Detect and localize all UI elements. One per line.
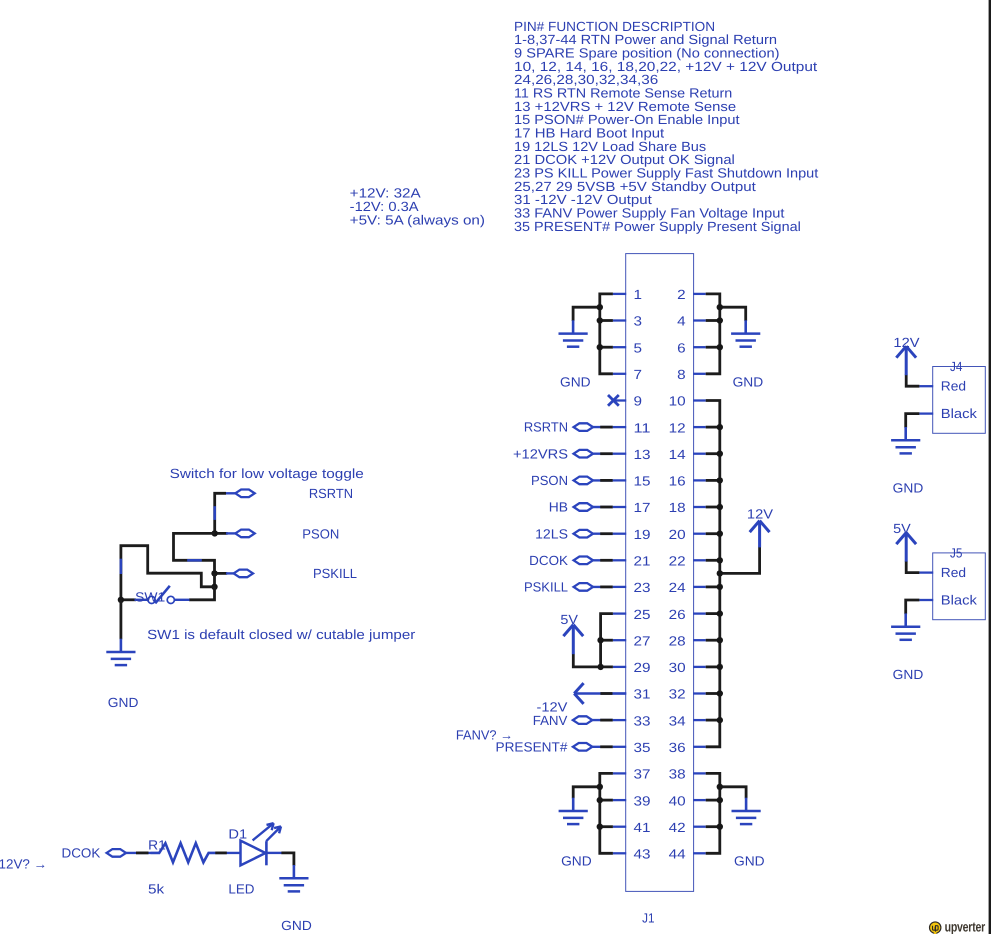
svg-text:SW1: SW1 xyxy=(135,590,165,605)
svg-text:J5: J5 xyxy=(950,545,962,560)
upverter logo xyxy=(930,920,986,934)
svg-text:GND: GND xyxy=(561,854,592,869)
svg-text:32: 32 xyxy=(669,687,686,702)
svg-text:GND: GND xyxy=(734,854,765,869)
svg-text:36: 36 xyxy=(669,740,686,755)
J1 pin 28 stub xyxy=(693,639,706,641)
svg-text:7: 7 xyxy=(634,367,643,382)
wire: DCOK to R1 xyxy=(126,852,151,854)
J1 pin 32 stub xyxy=(693,692,706,694)
junction: pins38-44 branch xyxy=(717,784,723,790)
svg-text:Black: Black xyxy=(941,592,977,607)
wire: PSKILL port xyxy=(215,572,235,575)
port DCOK (led) xyxy=(107,849,126,857)
svg-text:GND: GND xyxy=(560,374,591,389)
svg-text:12V: 12V xyxy=(893,335,919,350)
wire: R1 to D1 xyxy=(215,852,240,854)
svg-text:17: 17 xyxy=(634,500,651,515)
wire: 12V branch from bus xyxy=(720,547,760,574)
LED D1 xyxy=(241,823,282,865)
ground GND (J4) xyxy=(891,427,920,453)
ground GND (J5) xyxy=(891,613,920,639)
J1 pin 17 stub xyxy=(613,506,626,508)
sheet border (right edge) xyxy=(989,0,991,934)
svg-text:19: 19 xyxy=(634,527,651,542)
port HB xyxy=(574,503,593,511)
switch SW1 xyxy=(135,586,190,604)
port RSRTN xyxy=(574,423,593,431)
svg-text:38: 38 xyxy=(669,767,686,782)
power flag 5V (J5) xyxy=(896,533,916,562)
svg-text:Black: Black xyxy=(941,406,977,421)
junction: pin 24 xyxy=(717,584,723,590)
blue segment on jumper wire xyxy=(120,559,123,574)
svg-text:26: 26 xyxy=(669,607,686,622)
port DCOK xyxy=(574,557,593,565)
connector J5 body xyxy=(933,553,986,620)
wire: RSRTN port to node xyxy=(215,493,236,533)
svg-text:+5V: 5A (always on): +5V: 5A (always on) xyxy=(350,212,485,227)
svg-text:R1: R1 xyxy=(148,838,166,853)
port PSKILL (switch) xyxy=(234,570,253,578)
J1 pin 25 stub xyxy=(613,612,626,614)
svg-text:14: 14 xyxy=(669,447,687,462)
J1 pin 9 stub xyxy=(613,399,626,401)
resistor R1 xyxy=(151,843,216,862)
J1 pin 16 stub xyxy=(693,479,706,481)
no-connect X on pin 9 xyxy=(608,395,619,406)
port FANV xyxy=(573,716,592,724)
svg-text:22: 22 xyxy=(669,554,686,569)
junction: pins37-43 branch xyxy=(597,784,603,790)
svg-text:6: 6 xyxy=(677,340,686,355)
power flag 12V (bus) xyxy=(750,521,770,548)
svg-text:GND: GND xyxy=(108,695,139,710)
wire: port PSON to pin 15 xyxy=(593,479,613,481)
connector J4 body xyxy=(933,367,986,434)
junction: SW1 left / GND node xyxy=(118,597,124,603)
svg-text:35 PRESENT# Power Supply Prese: 35 PRESENT# Power Supply Present Signal xyxy=(514,219,801,234)
connector J1 body xyxy=(626,254,694,892)
wire: +12V bus pins 10-36 xyxy=(706,401,720,747)
wire: 5V to J5 Red xyxy=(906,561,919,573)
J1 pin 13 stub xyxy=(613,453,626,455)
ground GND (pins 2-8) xyxy=(731,320,760,346)
svg-text:GND: GND xyxy=(893,480,924,495)
wire: J5 Black to ground xyxy=(906,600,920,614)
junction: pin 18 xyxy=(717,504,723,510)
wire: pins 25,27,29 5V bracket xyxy=(573,614,613,667)
port PSON (switch) xyxy=(235,530,254,538)
svg-text:9: 9 xyxy=(634,394,643,409)
svg-text:RSRTN: RSRTN xyxy=(309,486,353,501)
J5 pin Black stub xyxy=(919,599,933,601)
J1 pin 3 stub xyxy=(613,319,626,321)
J1 pin 21 stub xyxy=(613,559,626,561)
svg-text:SW1 is default closed w/ cutab: SW1 is default closed w/ cutable jumper xyxy=(147,627,416,642)
svg-text:28: 28 xyxy=(669,633,686,648)
pin function description text block xyxy=(514,19,819,234)
port +12VRS xyxy=(574,450,593,458)
junction: pin 26 xyxy=(717,610,723,616)
wire: 12V to J4 Red xyxy=(906,375,919,387)
wire: port PRESENT# to pin 35 xyxy=(593,746,613,748)
wire: port 12LS to pin 19 xyxy=(593,533,613,535)
wire: cutable jumper loop around SW1 xyxy=(121,546,215,600)
svg-text:+12VRS: +12VRS xyxy=(513,446,568,461)
J1 pin 10 stub xyxy=(693,399,706,401)
J1 pin 18 stub xyxy=(693,506,706,508)
J1 pin 15 stub xyxy=(613,479,626,481)
junction: pin 27 xyxy=(597,637,603,643)
J1 pin 34 stub xyxy=(693,719,706,721)
J1 pin 29 stub xyxy=(613,666,626,668)
J1 pin 2 stub xyxy=(693,293,706,295)
J1 pin 27 stub xyxy=(613,639,626,641)
junction: pin 22 xyxy=(717,557,723,563)
junction: pin 42 xyxy=(717,824,723,830)
J1 pin 1 stub xyxy=(613,293,626,295)
J1 pin 12 stub xyxy=(693,426,706,428)
junction: RSRTN/PSON node xyxy=(212,530,218,536)
J1 pin 23 stub xyxy=(613,586,626,588)
svg-text:GND: GND xyxy=(281,918,312,933)
ground GND (switch) xyxy=(106,639,135,665)
svg-text:5V: 5V xyxy=(893,521,911,536)
J1 pin 26 stub xyxy=(693,612,706,614)
J4 pin Black stub xyxy=(919,412,933,414)
wire: pins 38,40,42,44 ground bracket xyxy=(706,773,746,853)
J5 pin Red stub xyxy=(919,571,933,573)
port RSRTN (switch) xyxy=(235,490,254,498)
svg-text:FANV? →: FANV? → xyxy=(456,727,513,742)
svg-text:GND: GND xyxy=(893,667,924,682)
junction: pin 3 xyxy=(597,317,603,323)
J1 pin 5 stub xyxy=(613,346,626,348)
junction: PSKILL node xyxy=(211,570,217,576)
svg-text:43: 43 xyxy=(634,847,651,862)
J1 pin 42 stub xyxy=(693,826,706,828)
svg-text:20: 20 xyxy=(669,527,686,542)
ground GND (pins 1-7) xyxy=(559,320,588,346)
junction: pins2-8 branch xyxy=(717,304,723,310)
wire: PSKILL node down to switch node xyxy=(213,573,216,586)
wire: J4 Black to ground xyxy=(906,414,920,428)
svg-text:8: 8 xyxy=(677,367,686,382)
wire: port HB to pin 17 xyxy=(593,506,613,508)
junction: pin 29 xyxy=(597,664,603,670)
svg-text:29: 29 xyxy=(634,660,651,675)
junction: pin 12 xyxy=(717,424,723,430)
J1 pin 31 stub xyxy=(613,692,626,694)
svg-text:31: 31 xyxy=(634,687,651,702)
wire: PSON port node xyxy=(215,532,236,535)
port 12LS xyxy=(574,530,593,538)
ground GND (pins 38-44) xyxy=(732,798,761,824)
svg-text:LED: LED xyxy=(228,882,254,897)
svg-text:Switch for low voltage toggle: Switch for low voltage toggle xyxy=(170,466,364,481)
svg-text:5k: 5k xyxy=(148,882,165,897)
junction: pin 40 xyxy=(717,797,723,803)
svg-text:FANV: FANV xyxy=(533,713,568,728)
svg-text:Red: Red xyxy=(941,565,966,580)
ground GND (pins 37-43) xyxy=(559,798,588,824)
svg-text:12V? →: 12V? → xyxy=(0,857,47,872)
J1 pin 37 stub xyxy=(613,772,626,774)
svg-text:DCOK: DCOK xyxy=(529,553,568,568)
wire: PSON node to PSKILL node (jog) xyxy=(174,533,215,573)
svg-text:DCOK: DCOK xyxy=(62,845,101,860)
svg-text:11: 11 xyxy=(634,420,651,435)
svg-text:J4: J4 xyxy=(950,359,963,374)
wire: port FANV to pin 33 xyxy=(593,719,613,721)
wire: pins 1,3,5,7 ground bracket xyxy=(573,294,613,374)
svg-text:PSKILL: PSKILL xyxy=(313,566,357,581)
wire: switch node down to SW1 right terminal xyxy=(189,587,214,600)
J1 pin 8 stub xyxy=(693,373,706,375)
junction: pin 30 xyxy=(717,664,723,670)
svg-text:23: 23 xyxy=(634,580,651,595)
junction: pins1-7 branch xyxy=(597,304,603,310)
J1 pin 19 stub xyxy=(613,533,626,535)
svg-text:Red: Red xyxy=(941,379,966,394)
svg-text:10: 10 xyxy=(669,394,686,409)
wire: port DCOK to pin 21 xyxy=(593,559,613,561)
junction: pin 14 xyxy=(717,451,723,457)
port PRESENT# xyxy=(573,743,592,751)
svg-text:J1: J1 xyxy=(642,911,654,926)
junction: pin 32 xyxy=(717,690,723,696)
wire: pins 2,4,6,8 ground bracket xyxy=(706,294,746,374)
wire: D1 cathode to ground xyxy=(281,853,294,866)
svg-text:39: 39 xyxy=(634,793,651,808)
svg-text:24: 24 xyxy=(669,580,687,595)
svg-text:34: 34 xyxy=(669,713,687,728)
J1 pin 30 stub xyxy=(693,666,706,668)
svg-text:PSON: PSON xyxy=(302,526,339,541)
svg-text:upverter: upverter xyxy=(945,920,986,934)
junction: pin 34 xyxy=(717,717,723,723)
J1 pin 4 stub xyxy=(693,319,706,321)
svg-text:D1: D1 xyxy=(228,827,247,842)
J1 pin 22 stub xyxy=(693,559,706,561)
wire: pin 31 to -12V arrow xyxy=(575,692,627,694)
wire: port +12VRS to pin 13 xyxy=(593,453,613,455)
junction: pin 41 xyxy=(597,824,603,830)
svg-text:5V: 5V xyxy=(560,612,578,627)
svg-text:12: 12 xyxy=(669,420,686,435)
supply ratings note xyxy=(350,186,485,228)
svg-text:42: 42 xyxy=(669,820,686,835)
junction: pin 39 xyxy=(597,797,603,803)
svg-text:GND: GND xyxy=(733,374,764,389)
svg-text:44: 44 xyxy=(669,847,687,862)
svg-text:30: 30 xyxy=(669,660,686,675)
J1 pin 43 stub xyxy=(613,852,626,854)
junction: pin 28 xyxy=(717,637,723,643)
wire: SW1 left terminal to ground node xyxy=(121,598,136,601)
wire: switch GND drop xyxy=(120,600,123,640)
J1 pin 36 stub xyxy=(693,746,706,748)
wire: port PSKILL to pin 23 xyxy=(593,586,613,588)
power flag 5V (pins 25-29) xyxy=(563,625,583,655)
svg-text:37: 37 xyxy=(634,767,651,782)
J1 pin 33 stub xyxy=(613,719,626,721)
port PSON xyxy=(574,477,593,485)
svg-text:16: 16 xyxy=(669,474,686,489)
svg-text:40: 40 xyxy=(669,793,686,808)
J1 pin 39 stub xyxy=(613,799,626,801)
svg-text:25: 25 xyxy=(634,607,651,622)
svg-text:33: 33 xyxy=(634,713,651,728)
J1 pin 44 stub xyxy=(693,852,706,854)
junction: pin 6 xyxy=(717,344,723,350)
wire: port RSRTN to pin 11 xyxy=(593,426,613,428)
svg-text:2: 2 xyxy=(677,287,686,302)
junction: pin 20 xyxy=(717,531,723,537)
port PSKILL xyxy=(574,583,593,591)
junction: jumper/switch node xyxy=(211,584,217,590)
wire: pins 37,39,41,43 ground bracket xyxy=(573,773,613,853)
svg-text:RSRTN: RSRTN xyxy=(524,420,568,435)
svg-text:PSON: PSON xyxy=(531,473,568,488)
svg-text:4: 4 xyxy=(677,314,686,329)
J1 pin 14 stub xyxy=(693,453,706,455)
J1 pin 40 stub xyxy=(693,799,706,801)
J1 pin 6 stub xyxy=(693,346,706,348)
J1 pin 7 stub xyxy=(613,373,626,375)
power flag -12V (left arrow on pin 31) xyxy=(574,683,583,704)
svg-text:21: 21 xyxy=(634,554,651,569)
J1 pin 20 stub xyxy=(693,533,706,535)
svg-text:35: 35 xyxy=(634,740,651,755)
power flag 12V (J4) xyxy=(896,346,916,375)
svg-text:HB: HB xyxy=(549,500,568,515)
junction: pin 16 xyxy=(717,477,723,483)
svg-text:18: 18 xyxy=(669,500,686,515)
ground GND (led) xyxy=(279,865,308,891)
J4 pin Red stub xyxy=(919,385,933,387)
svg-text:5: 5 xyxy=(634,340,643,355)
J1 pin 35 stub xyxy=(613,746,626,748)
svg-text:13: 13 xyxy=(634,447,651,462)
J1 pin 41 stub xyxy=(613,826,626,828)
svg-text:41: 41 xyxy=(634,820,651,835)
svg-text:27: 27 xyxy=(634,633,651,648)
svg-text:PSKILL: PSKILL xyxy=(524,580,568,595)
J1 pin 38 stub xyxy=(693,772,706,774)
svg-text:1: 1 xyxy=(634,287,643,302)
svg-text:12V: 12V xyxy=(747,507,773,522)
J1 pin 24 stub xyxy=(693,586,706,588)
junction: pin 5 xyxy=(597,344,603,350)
junction: pin 4 xyxy=(717,317,723,323)
svg-text:3: 3 xyxy=(634,314,643,329)
junction: 12V branch xyxy=(717,570,723,576)
J1 pin 11 stub xyxy=(613,426,626,428)
svg-text:15: 15 xyxy=(634,474,651,489)
svg-text:12LS: 12LS xyxy=(535,526,568,541)
